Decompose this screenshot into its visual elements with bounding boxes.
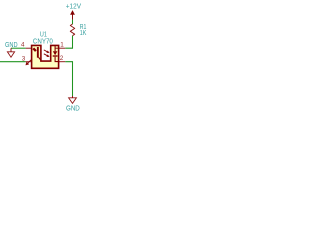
wire resistor to pin1: [65, 36, 72, 49]
photodiode triangle: [53, 51, 58, 55]
svg-text:1: 1: [60, 41, 64, 48]
light arrow lower: [44, 54, 50, 57]
pin 3: [26, 61, 32, 63]
ground symbol bottom: [69, 96, 77, 103]
wire pin 2 to ground: [65, 62, 72, 96]
svg-text:U1: U1: [40, 32, 47, 39]
photodiode cathode bar: [53, 55, 58, 57]
phototransistor collector line: [54, 46, 56, 52]
svg-text:GND: GND: [5, 42, 18, 49]
wire power to resistor: [72, 20, 74, 25]
pin 4: [26, 47, 32, 49]
pin 1: [59, 47, 66, 49]
power symbol +12V arrow: [71, 11, 75, 20]
phototransistor emitter line: [55, 57, 59, 62]
LED emission arrow: [26, 59, 32, 65]
pin 2: [59, 61, 66, 63]
phototransistor collector connector: [55, 47, 59, 49]
light arrow upper: [44, 50, 50, 53]
svg-text:GND: GND: [66, 106, 80, 113]
svg-text:+12V: +12V: [66, 4, 82, 11]
wire GND to pin 4: [11, 47, 26, 49]
opto-coupler U1 CNY70 body: [32, 45, 59, 68]
svg-text:2: 2: [60, 55, 64, 62]
svg-text:4: 4: [21, 42, 25, 49]
LED cathode bar: [37, 47, 39, 58]
resistor R1: [70, 24, 74, 36]
wire left to pin 3: [0, 61, 26, 63]
ground symbol left: [7, 48, 14, 57]
LED lead to notch corner: [39, 57, 41, 60]
LED anode triangle: [33, 48, 36, 51]
svg-text:1K: 1K: [80, 30, 87, 37]
